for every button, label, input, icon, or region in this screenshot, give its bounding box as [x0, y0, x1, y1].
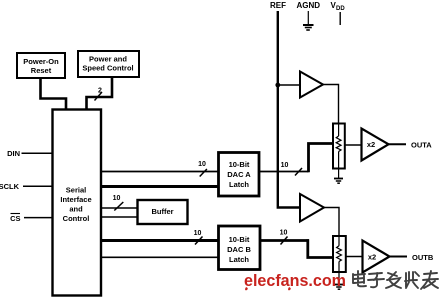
svg-text:SCLK: SCLK [0, 182, 20, 191]
watermark chinese characters [353, 271, 438, 289]
wire serial to DAC B latch (10-bit, thick) [100, 239, 218, 242]
svg-text:Buffer: Buffer [151, 207, 173, 216]
svg-text:Power-On: Power-On [23, 57, 59, 66]
wire Power and Speed Control to Serial Interface [87, 77, 113, 109]
bus slash 10 (DAC A input) [200, 169, 207, 177]
svg-text:OUTB: OUTB [412, 253, 434, 262]
wire serial to DAC A latch (10-bit data) [100, 171, 218, 173]
svg-text:Serial: Serial [66, 186, 86, 195]
svg-text:DAC A: DAC A [227, 170, 251, 179]
svg-text:10: 10 [194, 230, 202, 237]
wire buffer A output to resistor string A [323, 85, 339, 124]
svg-text:Interface: Interface [60, 195, 91, 204]
svg-text:DD: DD [336, 6, 345, 12]
op-amp buffer B [300, 194, 324, 222]
wire serial to DAC A latch (control, thick) [100, 185, 218, 188]
wire resistor string A to ground [338, 169, 340, 179]
svg-text:x2: x2 [368, 253, 376, 262]
bus slash 2 [95, 92, 103, 101]
wire serial to Buffer (second) [100, 216, 138, 218]
svg-text:10: 10 [280, 230, 288, 237]
resistor string B (box) [333, 236, 346, 272]
svg-text:10: 10 [113, 195, 121, 202]
amplifier x2 A [362, 129, 389, 161]
block Serial Interface and Control [53, 110, 102, 296]
svg-text:OUTA: OUTA [411, 141, 432, 150]
svg-text:DIN: DIN [7, 149, 20, 158]
svg-text:10-Bit: 10-Bit [229, 160, 250, 169]
block Power and Speed Control [78, 51, 139, 77]
block Power-On Reset [17, 53, 65, 78]
wire SCLK [23, 185, 52, 187]
wire VDD stub [339, 12, 341, 25]
wire Power-On Reset to Serial Interface [41, 78, 67, 109]
op-amp buffer A [300, 72, 323, 98]
bus slash 10 (DAC B output) [281, 237, 288, 245]
svg-text:10-Bit: 10-Bit [229, 235, 250, 244]
wire serial to Buffer (10-bit) [100, 207, 138, 209]
svg-text:2: 2 [98, 88, 102, 95]
block 10-Bit DAC A Latch [219, 153, 260, 197]
wire CS [24, 217, 52, 219]
bus slash 10 (DAC A output) [295, 168, 302, 176]
wire REF to buffer amp A [278, 84, 300, 86]
svg-text:Control: Control [63, 214, 90, 223]
wire DAC B to resistor string B [308, 239, 333, 257]
wire resistor string B to ground [338, 272, 340, 284]
svg-text:Latch: Latch [229, 180, 249, 189]
svg-text:AGND: AGND [297, 1, 321, 10]
wire DIN [22, 152, 53, 154]
wire DAC B latch output [260, 239, 309, 242]
svg-text:10: 10 [198, 161, 206, 168]
resistor R (string A zigzag) [336, 136, 341, 152]
wire AGND [307, 11, 309, 24]
svg-text:elecfans.com: elecfans.com [244, 272, 346, 290]
svg-text:Speed Control: Speed Control [82, 64, 133, 73]
ground AGND [303, 25, 314, 30]
ground (below resistor string A) [334, 179, 343, 184]
svg-text:Power and: Power and [89, 55, 127, 64]
svg-text:10: 10 [281, 162, 289, 169]
wire resistor string B to x2 amp B [346, 256, 362, 258]
ground (below resistor string B) [334, 285, 343, 290]
svg-text:x2: x2 [367, 140, 375, 149]
wire REF vertical [278, 11, 300, 208]
bus slash 10 (buffer input) [114, 202, 123, 211]
wire serial to DAC B latch (second) [100, 256, 218, 258]
svg-text:CS: CS [10, 214, 20, 223]
resistor string A (box) [333, 124, 345, 169]
wire DAC A to resistor string A [309, 144, 334, 173]
wire x2 A to OUTA [389, 143, 407, 145]
wire buffer B output to resistor string B [324, 208, 339, 237]
node junction REF to buffer A [275, 83, 280, 88]
wire x2 B to OUTB [390, 256, 408, 258]
svg-text:DAC B: DAC B [227, 245, 251, 254]
wire resistor string A to x2 amp A [345, 144, 361, 146]
resistor R (string B zigzag) [337, 246, 342, 262]
block 10-Bit DAC B Latch [219, 226, 261, 270]
amplifier x2 B [363, 241, 390, 273]
block Buffer [138, 200, 188, 224]
wire DAC A latch output [259, 171, 309, 173]
svg-text:Latch: Latch [229, 255, 249, 264]
svg-text:and: and [69, 205, 83, 214]
bus slash 10 (DAC B input) [195, 237, 203, 245]
svg-text:REF: REF [270, 1, 286, 10]
svg-text:Reset: Reset [31, 66, 52, 75]
